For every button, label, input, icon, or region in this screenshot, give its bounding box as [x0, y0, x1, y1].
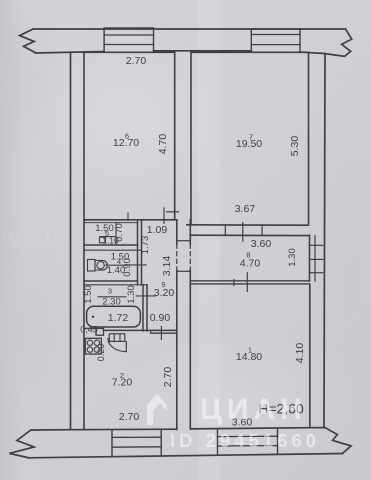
svg-text:0.70: 0.70: [114, 223, 125, 242]
svg-text:ЦИАН: ЦИАН: [2, 228, 59, 247]
dim line 1.40: [106, 264, 126, 266]
room 1 right wall: [309, 285, 311, 428]
svg-text:3.60: 3.60: [251, 238, 272, 250]
node break symbol bottom-left: [9, 430, 70, 458]
svg-text:3.14: 3.14: [161, 256, 173, 277]
bathtub: [87, 306, 141, 327]
node dim tick room5 top: [127, 213, 129, 221]
svg-text:3: 3: [108, 287, 112, 296]
room 8 right wall: [309, 235, 311, 281]
svg-text:4.10: 4.10: [294, 343, 306, 364]
room 3 bath walls: [142, 285, 144, 331]
faint watermark top-left: [2, 228, 59, 247]
svg-text:7.20: 7.20: [112, 377, 133, 389]
dim leader 0.90 wc: [128, 264, 146, 266]
wire top exterior wall band top line: [33, 28, 345, 30]
sink symbol kitchen: [109, 334, 125, 342]
svg-text:2.70: 2.70: [162, 367, 174, 388]
bathroom bottom wall + notch 0.45: [84, 327, 96, 329]
node door jamb room1: [246, 273, 248, 292]
svg-text:1.30: 1.30: [287, 248, 298, 267]
node ticks between room7/8: [224, 225, 226, 235]
svg-text:0.20: 0.20: [96, 344, 106, 362]
window W4 bottom room1: [217, 429, 219, 455]
watermark CIAN: [147, 393, 320, 451]
wire right exterior wall outer: [324, 54, 325, 428]
dim line 1.10: [100, 236, 116, 238]
svg-text:0.90: 0.90: [122, 258, 133, 277]
room 6 walls: [83, 52, 85, 429]
window W5 room8 right: [314, 236, 316, 281]
svg-text:1.50: 1.50: [83, 285, 94, 304]
svg-text:3.67: 3.67: [235, 203, 256, 215]
room 7 bottom wall: [187, 224, 309, 226]
node tick room8 bottom: [233, 280, 235, 286]
svg-text:9: 9: [162, 282, 166, 289]
svg-text:2.70: 2.70: [119, 411, 140, 423]
room 8 bottom wall band: [190, 280, 309, 282]
node door jambs hallway: [177, 240, 191, 242]
svg-text:1.73: 1.73: [140, 236, 151, 255]
window W1 top: [104, 28, 153, 52]
room 4 wc walls: [84, 280, 138, 282]
svg-text:2.30: 2.30: [102, 297, 121, 308]
window W2 top: [251, 29, 300, 52]
svg-text:0.90: 0.90: [150, 312, 171, 324]
window W3 bottom kitchen: [111, 430, 113, 456]
wire top exterior wall band bottom line: [35, 52, 104, 54]
wire left exterior wall: [70, 53, 72, 430]
node break symbol top-left: [20, 29, 36, 53]
svg-text:14.80: 14.80: [236, 351, 262, 363]
svg-text:ЦИАН: ЦИАН: [200, 393, 307, 426]
dim line 2.30: [98, 296, 126, 298]
svg-text:4.70: 4.70: [157, 134, 169, 155]
node dim tick 1.09 cross: [163, 208, 165, 223]
svg-text:4.70: 4.70: [240, 258, 261, 270]
door arc kitchen: [108, 339, 126, 352]
node break symbol bottom-right: [325, 428, 351, 454]
dim leader 1.30 bath: [136, 295, 155, 297]
svg-text:0,45: 0,45: [80, 325, 98, 335]
watermark house glyph: [147, 394, 167, 425]
hallway right wall (kitchen/room1 wall): [176, 220, 178, 244]
svg-text:5.30: 5.30: [289, 136, 301, 157]
node tick hallway bottom: [160, 327, 162, 340]
node shelf icon room5: [100, 237, 106, 243]
stove symbol kitchen: [85, 338, 101, 354]
svg-text:1.30: 1.30: [126, 285, 137, 304]
wire bottom exterior band bottom line: [29, 454, 343, 458]
svg-text:1.72: 1.72: [108, 312, 129, 324]
room 6 bottom wall: [84, 219, 177, 221]
toilet symbol: [88, 260, 96, 272]
svg-text:ID 29451660: ID 29451660: [170, 430, 320, 451]
node break symbol top-right: [325, 29, 352, 56]
room 8 top wall: [190, 234, 309, 236]
room 5 closet walls: [137, 220, 139, 285]
svg-text:2.70: 2.70: [126, 55, 147, 67]
room 7 walls: [190, 52, 192, 223]
svg-text:19.50: 19.50: [236, 138, 262, 150]
svg-text:1.09: 1.09: [147, 224, 168, 236]
svg-text:12.70: 12.70: [113, 137, 139, 149]
wire bottom exterior band top line: [71, 428, 177, 431]
